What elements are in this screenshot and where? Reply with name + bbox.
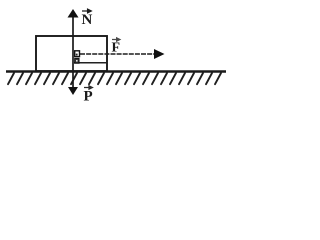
centre marker upper square [75, 51, 80, 57]
centre marker inner dot [76, 54, 78, 56]
block [36, 36, 107, 71]
label F vector arrow [112, 38, 120, 41]
line of action of N and P [72, 15, 74, 88]
force F dotted line [80, 53, 156, 55]
svg-text:P: P [84, 89, 93, 105]
inner horizontal line to block edge [74, 62, 107, 64]
centre marker lower square [75, 58, 79, 63]
label P vector arrow [84, 86, 93, 89]
ground hatching [8, 73, 221, 84]
ground [6, 70, 226, 72]
force N arrowhead [68, 9, 79, 18]
svg-text:N: N [82, 12, 93, 28]
label N vector arrow [82, 9, 91, 13]
force F arrowhead [154, 49, 165, 59]
force P arrowhead [68, 87, 78, 95]
lower square white fleck [76, 60, 78, 62]
svg-text:F: F [112, 41, 121, 56]
